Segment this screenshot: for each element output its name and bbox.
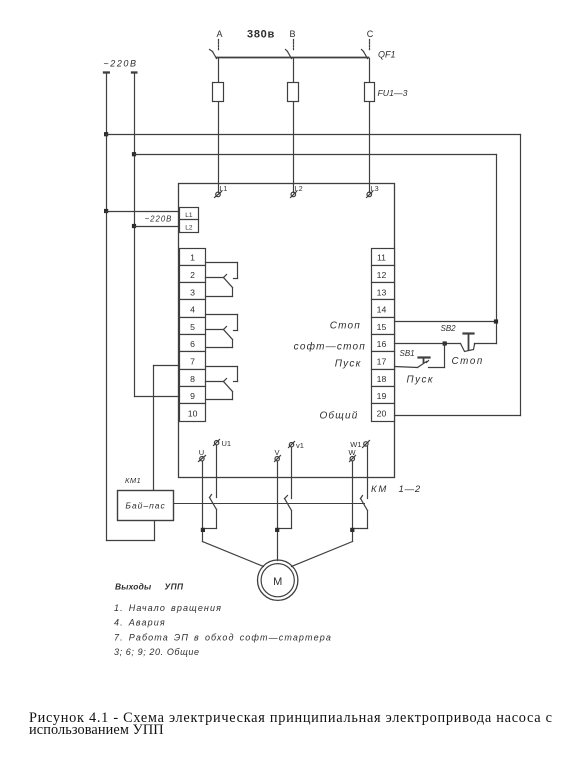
svg-text:Пуск: Пуск <box>407 374 435 385</box>
pin number 17 <box>377 357 387 367</box>
fuse FU3 (phase C) <box>365 83 375 102</box>
terminal pin 12 (right) <box>372 266 395 283</box>
svg-text:16: 16 <box>377 339 387 349</box>
svg-text:М: М <box>273 576 282 588</box>
svg-text:10: 10 <box>188 408 198 418</box>
label KM1 <box>125 476 141 485</box>
pin label L1 <box>220 186 228 193</box>
junction on left rail (feedback line 1) <box>104 132 108 136</box>
svg-text:L2: L2 <box>185 225 193 232</box>
contactor contact KM1.1 (U bypass) <box>203 495 217 529</box>
svg-text:19: 19 <box>377 391 387 401</box>
wire W1 bypass branch <box>367 447 369 499</box>
wire pin 20 (Common) <box>395 415 521 417</box>
pin label L1 (control) <box>185 212 193 219</box>
svg-text:4: 4 <box>190 305 195 315</box>
node phase A label <box>216 29 222 39</box>
label ~220V at L1/L2 <box>145 215 173 224</box>
pin number 8 <box>190 374 195 384</box>
pin number 19 <box>377 391 387 401</box>
pin number 1 <box>190 253 195 263</box>
value label 380V <box>247 29 275 41</box>
svg-text:КМ1: КМ1 <box>125 476 141 485</box>
terminal pin 3 (left) <box>180 283 206 300</box>
svg-text:12: 12 <box>377 270 387 280</box>
svg-text:L3: L3 <box>371 186 379 193</box>
label SB2 <box>441 324 457 333</box>
terminal pin 1 (left) <box>180 249 206 266</box>
svg-text:L1: L1 <box>220 186 228 193</box>
svg-text:4. Авария: 4. Авария <box>114 618 166 628</box>
wire phase C down <box>369 59 371 193</box>
terminal V1 (bypass output) <box>289 442 295 448</box>
pin label V1 <box>296 441 304 450</box>
wire feedback line 2 (to terminal 15) <box>135 155 497 344</box>
breaker QF1 pole C <box>362 40 370 59</box>
svg-text:2: 2 <box>190 270 195 280</box>
wire KM1 linkage to bypass contacts <box>174 503 365 505</box>
svg-text:Бай–пас: Бай–пас <box>125 501 165 511</box>
label soft-stop (pin 16) <box>294 341 366 353</box>
pushbutton SB2 (Stop, NC) <box>461 334 497 352</box>
soft starter unit body <box>179 184 395 478</box>
svg-text:v1: v1 <box>296 441 304 450</box>
svg-text:B: B <box>289 29 295 39</box>
fuse FU1 (phase A) <box>213 83 224 102</box>
terminal pin 11 (right) <box>372 249 395 266</box>
pin number 12 <box>377 270 387 280</box>
label Pusk (pin 17) <box>335 359 362 370</box>
svg-text:U: U <box>199 448 204 457</box>
wire 220V rail left vertical <box>106 73 108 541</box>
terminal pin 16 (right) <box>372 335 395 352</box>
wire U output to motor <box>203 462 264 567</box>
pin number 15 <box>377 322 387 332</box>
wire feedback line 1 (to terminal 20) <box>107 135 521 416</box>
terminal pin 5 (left) <box>180 318 206 335</box>
terminal pin 4 (left) <box>180 300 206 318</box>
svg-text:6: 6 <box>190 339 195 349</box>
svg-text:FU1—3: FU1—3 <box>378 88 408 98</box>
svg-text:11: 11 <box>377 253 386 263</box>
terminal pin 18 (right) <box>372 370 395 387</box>
wire pin 16 (soft-stop input) <box>395 343 461 345</box>
terminal pin 9 (left) <box>180 387 206 404</box>
svg-text:3: 3 <box>190 287 195 297</box>
pin label W1 <box>350 440 361 449</box>
wire V1 bypass branch <box>291 448 293 499</box>
terminal pin 8 (left) <box>180 370 206 387</box>
pin number 14 <box>377 305 387 315</box>
wire pin 7 to relay K3 NO contact <box>206 367 238 382</box>
terminal W1 (bypass output) <box>363 441 370 448</box>
svg-text:3; 6; 9; 20. Общие: 3; 6; 9; 20. Общие <box>114 647 200 657</box>
relay K1 changeover contact blade (pin 2) <box>206 275 233 297</box>
terminal W (output) <box>350 456 356 462</box>
node phase B label <box>289 29 295 39</box>
pin number 4 <box>190 305 195 315</box>
svg-text:QF1: QF1 <box>378 50 396 60</box>
label Pusk (SB1) <box>407 374 435 385</box>
label FU1-3 <box>378 88 408 98</box>
contactor coil KM1 (bypass) <box>118 491 174 521</box>
terminal pin 2 (left) <box>180 266 206 283</box>
note 4 <box>114 618 166 628</box>
junction on left rail (L1 input) <box>104 209 108 213</box>
svg-text:УПП: УПП <box>165 582 184 592</box>
power rail terminal tick right <box>132 71 136 73</box>
node phase C label <box>367 29 374 39</box>
terminal L2 (top, phase B) <box>291 192 297 198</box>
pin number 18 <box>377 374 387 384</box>
svg-text:U1: U1 <box>222 439 232 448</box>
label Stop (SB2) <box>452 356 484 367</box>
pushbutton SB1 (Start, NO) <box>418 344 445 368</box>
wire phase B down <box>293 59 295 193</box>
wire KM1 coil to 220V rail (bottom) <box>107 521 155 541</box>
svg-text:380в: 380в <box>247 29 275 41</box>
wire phase A down <box>218 59 220 193</box>
terminal pin 14 (right) <box>372 300 395 318</box>
svg-text:L1: L1 <box>185 212 193 219</box>
pin number 10 <box>188 408 198 418</box>
wire V output to motor <box>277 462 279 561</box>
svg-text:W1: W1 <box>350 440 361 449</box>
caption line 2 <box>29 722 164 738</box>
svg-text:SB1: SB1 <box>400 349 415 358</box>
svg-text:W: W <box>348 448 356 457</box>
label KM 1-2 <box>371 484 421 495</box>
motor M1 <box>258 560 298 600</box>
svg-text:L2: L2 <box>295 186 303 193</box>
pin number 7 <box>190 357 195 367</box>
terminal pin 17 (right) <box>372 352 395 370</box>
wire U1 bypass branch <box>216 446 218 498</box>
contactor contact KM2.1 (W bypass) <box>353 496 368 529</box>
wire pin 17 (Start input) <box>395 367 418 368</box>
svg-text:17: 17 <box>377 357 387 367</box>
pin number 13 <box>377 287 387 297</box>
note commons <box>114 647 200 657</box>
pin label L3 <box>371 186 379 193</box>
pin number 16 <box>377 339 387 349</box>
breaker QF1 linkage bar <box>217 57 369 59</box>
svg-text:9: 9 <box>190 391 195 401</box>
terminal U1 (bypass output) <box>214 440 220 446</box>
svg-text:КМ: КМ <box>371 484 388 495</box>
wire to terminal L2 <box>135 226 180 228</box>
power rail ~220V label <box>103 59 137 69</box>
wire 220V rail right vertical <box>134 73 136 397</box>
note 1 <box>114 603 222 613</box>
svg-text:SB2: SB2 <box>441 324 457 333</box>
svg-text:20: 20 <box>377 408 387 418</box>
svg-text:Выходы: Выходы <box>115 582 151 592</box>
wire pin 6 to relay K2 contact <box>206 347 233 349</box>
pin number 6 <box>190 339 195 349</box>
wire to terminal L1 <box>107 211 180 213</box>
wire pin 1 to relay K1 NO contact <box>206 263 238 279</box>
svg-text:1: 1 <box>190 253 195 263</box>
power rail terminal tick left <box>104 71 109 73</box>
relay K3 changeover contact blade (pin 8) <box>206 379 233 400</box>
wire pin 7 to contactor coil KM1 <box>154 366 180 491</box>
svg-text:V: V <box>274 448 279 457</box>
svg-text:1—2: 1—2 <box>399 484 421 495</box>
svg-text:~220В: ~220В <box>103 59 137 69</box>
contactor contact KM1.2 (V bypass) <box>278 496 292 529</box>
svg-text:13: 13 <box>377 287 387 297</box>
svg-text:14: 14 <box>377 305 387 315</box>
terminal pin 10 (left) <box>180 404 206 422</box>
caption line 1 <box>29 710 553 726</box>
svg-text:A: A <box>216 29 222 39</box>
pin label U <box>199 448 204 457</box>
pin number 5 <box>190 322 195 332</box>
label SB1 <box>400 349 415 358</box>
pin number 20 <box>377 408 387 418</box>
label Common (pin 20) <box>319 410 358 422</box>
note heading outputs UPP <box>115 582 184 592</box>
svg-text:8: 8 <box>190 374 195 384</box>
pin label W <box>348 448 356 457</box>
svg-text:1. Начало вращения: 1. Начало вращения <box>114 603 222 613</box>
terminal pin 19 (right) <box>372 387 395 404</box>
terminal pin 20 (right) <box>372 404 395 422</box>
svg-text:7: 7 <box>190 357 195 367</box>
junction on right rail (L2 input) <box>132 224 136 228</box>
wire pin 4 to relay K2 NO contact <box>206 315 238 331</box>
label Stop (pin 15) <box>330 321 361 332</box>
pin label L2 <box>295 186 303 193</box>
terminal V (output) <box>275 456 281 462</box>
pin number 2 <box>190 270 195 280</box>
terminal pin 7 (left) <box>180 352 206 370</box>
value label Baypas <box>125 501 165 511</box>
svg-text:5: 5 <box>190 322 195 332</box>
fuse FU2 (phase B) <box>288 83 299 102</box>
junction V/motor <box>275 528 279 532</box>
svg-text:софт—стоп: софт—стоп <box>294 341 366 353</box>
wire pin 9 to relay K3 contact <box>206 399 233 401</box>
svg-text:~220В: ~220В <box>145 215 173 224</box>
pin number 11 <box>377 253 386 263</box>
wire W output to motor <box>292 462 353 567</box>
svg-text:Стоп: Стоп <box>452 356 484 367</box>
svg-text:7. Работа ЭП в обход софт—стар: 7. Работа ЭП в обход софт—стартера <box>114 633 332 643</box>
svg-text:использованием УПП: использованием УПП <box>29 722 164 738</box>
relay K2 changeover contact blade (pin 5) <box>206 327 233 348</box>
label M <box>273 576 282 588</box>
svg-text:Общий: Общий <box>319 410 358 422</box>
pin label U1 <box>222 439 232 448</box>
pin label V <box>274 448 279 457</box>
svg-text:Стоп: Стоп <box>330 321 361 332</box>
junction on right rail (feedback line 2) <box>132 152 136 156</box>
wire pin 9 to 220V rail <box>135 396 180 398</box>
pin label L2 (control) <box>185 225 193 232</box>
svg-text:15: 15 <box>377 322 387 332</box>
breaker QF1 pole A <box>210 40 219 59</box>
junction U/motor <box>201 528 205 532</box>
breaker QF1 pole B <box>286 40 294 59</box>
control supply terminal block L1/L2 <box>180 208 199 233</box>
terminal pin 13 (right) <box>372 283 395 300</box>
pin number 3 <box>190 287 195 297</box>
junction pin15/feedback <box>494 319 498 323</box>
terminal L1 (top, phase A) <box>215 192 222 198</box>
junction SB1/pin16 wire <box>443 341 447 345</box>
terminal pin 6 (left) <box>180 335 206 352</box>
svg-text:Пуск: Пуск <box>335 359 362 370</box>
svg-text:C: C <box>367 29 374 39</box>
terminal L3 (top, phase C) <box>367 192 373 198</box>
pin number 9 <box>190 391 195 401</box>
junction W/motor <box>350 528 354 532</box>
wire pin 15 (Stop input) <box>395 321 497 323</box>
note 7 <box>114 633 332 643</box>
terminal U (output) <box>199 456 206 462</box>
svg-text:18: 18 <box>377 374 387 384</box>
terminal pin 15 (right) <box>372 318 395 335</box>
label QF1 <box>378 50 396 60</box>
wire pin 3 to relay K1 contact <box>206 296 233 298</box>
